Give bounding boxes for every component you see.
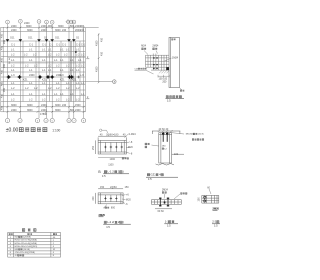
svg-text:-250×125×10(Q235B): -250×125×10(Q235B): [15, 251, 36, 254]
svg-text:4500: 4500: [96, 40, 99, 46]
svg-text:100: 100: [174, 153, 179, 156]
svg-text:450: 450: [1, 93, 4, 98]
svg-text:C-1: C-1: [62, 44, 67, 47]
svg-text:900: 900: [48, 25, 53, 28]
svg-text:L-1 2(: L-1 2(: [107, 170, 114, 174]
svg-text:250: 250: [92, 145, 95, 150]
svg-text:1:100: 1:100: [52, 129, 60, 133]
svg-text:2400: 2400: [29, 74, 35, 77]
svg-text:(10.9S): (10.9S): [23, 249, 30, 251]
svg-text:C-1: C-1: [29, 44, 34, 47]
svg-text:800: 800: [111, 207, 116, 210]
svg-text:2400: 2400: [11, 25, 17, 28]
svg-text:±0.00: ±0.00: [6, 128, 19, 134]
svg-text:GJ1: GJ1: [28, 37, 33, 40]
svg-text:900: 900: [3, 87, 6, 92]
svg-text:2@60: 2@60: [110, 186, 117, 189]
svg-text:150: 150: [100, 186, 105, 189]
svg-text:H250×125×6×9(Q345B): H250×125×6×9(Q345B): [15, 239, 38, 242]
svg-text:900: 900: [3, 39, 6, 44]
svg-text:L-2 2(: L-2 2(: [107, 220, 114, 224]
svg-text:C-1: C-1: [42, 44, 47, 47]
svg-text:3000: 3000: [55, 29, 61, 32]
svg-text:GJ1: GJ1: [10, 37, 15, 40]
svg-text:KZ1: KZ1: [60, 79, 65, 82]
svg-text:200: 200: [92, 196, 95, 201]
svg-text:1500: 1500: [75, 104, 81, 107]
svg-text:M20: M20: [128, 146, 133, 149]
svg-text:3000: 3000: [27, 29, 33, 32]
svg-text:C-1: C-1: [81, 44, 86, 47]
svg-text:450: 450: [1, 45, 4, 50]
svg-text:1:5: 1:5: [106, 225, 110, 229]
svg-text:2400: 2400: [41, 29, 47, 32]
svg-text:2400: 2400: [11, 29, 17, 32]
svg-text:17800: 17800: [40, 113, 47, 116]
svg-text:3600: 3600: [27, 109, 33, 112]
svg-text:3000: 3000: [55, 104, 61, 107]
svg-text:40 60 40: 40 60 40: [159, 128, 169, 131]
svg-text:(Q345B): (Q345B): [23, 237, 31, 239]
svg-text:C-1: C-1: [49, 44, 54, 47]
svg-text:1:5: 1:5: [148, 177, 152, 181]
svg-text:3600: 3600: [26, 25, 32, 28]
svg-text:2-M24: 2-M24: [129, 133, 137, 136]
svg-text:C-1: C-1: [11, 44, 16, 47]
svg-text:KZ1: KZ1: [23, 79, 28, 82]
svg-text:C-1: C-1: [76, 44, 81, 47]
svg-text:2-2: 2-2: [212, 220, 216, 224]
svg-text:200: 200: [162, 80, 167, 83]
svg-text:3600: 3600: [58, 25, 64, 28]
svg-text:900: 900: [3, 63, 6, 68]
svg-text:450: 450: [1, 33, 4, 38]
svg-text:3@60=180: 3@60=180: [106, 134, 119, 137]
svg-text:450: 450: [101, 51, 104, 56]
svg-text:H250×125×6×9(Q345B): H250×125×6×9(Q345B): [15, 242, 38, 245]
svg-text:1:5: 1:5: [167, 98, 171, 102]
svg-text:1:5: 1:5: [214, 224, 218, 228]
svg-text:M24: M24: [141, 45, 146, 48]
svg-text:4500: 4500: [96, 66, 99, 72]
svg-text:240: 240: [62, 29, 67, 32]
svg-text:450: 450: [1, 81, 4, 86]
svg-text:450: 450: [1, 57, 4, 62]
svg-text:C-1: C-1: [56, 44, 61, 47]
svg-text:240: 240: [80, 29, 85, 32]
svg-text:450: 450: [1, 69, 4, 74]
svg-text:1:5: 1:5: [102, 174, 106, 178]
svg-text:450: 450: [1, 105, 4, 110]
svg-text:240: 240: [62, 104, 67, 107]
svg-text:3000: 3000: [11, 104, 17, 107]
svg-text:M20: M20: [126, 198, 131, 201]
svg-text:2M24: 2M24: [162, 189, 168, 191]
svg-text:): ): [123, 220, 124, 224]
svg-text:900: 900: [80, 25, 85, 28]
svg-text:H200×100×5.5×8(Q345): H200×100×5.5×8(Q345): [15, 245, 38, 248]
svg-text:1000: 1000: [110, 158, 116, 161]
svg-text:2400: 2400: [75, 109, 81, 112]
svg-text:150: 150: [198, 197, 201, 202]
svg-text:GJ1: GJ1: [55, 37, 60, 40]
svg-text:1M24: 1M24: [172, 56, 179, 59]
svg-text:1:5: 1:5: [167, 224, 171, 228]
svg-text:60 60: 60 60: [158, 210, 165, 213]
svg-text:(10.9): (10.9): [198, 134, 204, 136]
svg-text:2400: 2400: [11, 109, 17, 112]
svg-text:): ): [123, 170, 124, 174]
svg-text:2M24: 2M24: [152, 45, 159, 48]
svg-text:800: 800: [70, 109, 75, 112]
svg-text:150: 150: [125, 186, 130, 189]
svg-text:3000: 3000: [27, 104, 33, 107]
svg-text:2400: 2400: [41, 104, 47, 107]
svg-text:3600: 3600: [55, 109, 61, 112]
svg-text:2400: 2400: [41, 109, 47, 112]
svg-text:2400: 2400: [41, 25, 47, 28]
svg-text:800: 800: [70, 25, 75, 28]
svg-text:GZ1: GZ1: [150, 173, 156, 177]
svg-text:450: 450: [101, 37, 104, 42]
svg-text:1100: 1100: [108, 164, 114, 167]
